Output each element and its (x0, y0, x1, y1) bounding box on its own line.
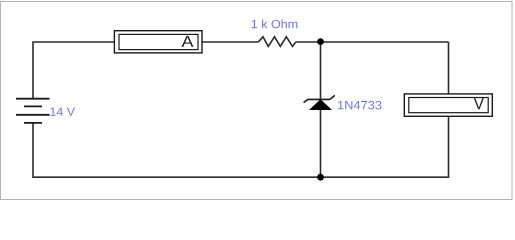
label 1 k Ohm (252, 20, 298, 29)
resistor R1 (259, 37, 297, 47)
wire: battery plus to top-left corner to ammeter (33, 42, 114, 99)
label 14 V (50, 108, 75, 116)
wire: zener branch vertical (320, 42, 322, 177)
wire: ammeter to resistor (202, 41, 259, 43)
wire: resistor to top-right corner (296, 41, 449, 43)
wire: right vertical into voltmeter top (448, 42, 450, 94)
zener diode D1 (304, 95, 335, 109)
label A (182, 36, 194, 47)
voltmeter U2 (404, 94, 492, 116)
wire: voltmeter bottom to bottom rail (448, 116, 450, 178)
label 1N4733 (338, 101, 381, 110)
node junction bottom (317, 174, 324, 181)
ammeter U1 (114, 31, 202, 53)
wire: battery minus to bottom rail (32, 123, 34, 178)
wire: bottom rail (33, 176, 449, 178)
battery B1 (16, 99, 50, 123)
node junction top (317, 38, 324, 45)
label V (474, 98, 484, 109)
